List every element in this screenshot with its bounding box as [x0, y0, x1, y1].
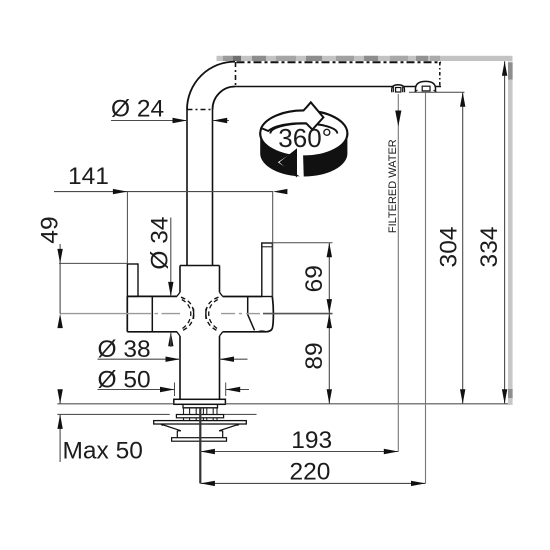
dim 49 line: [59, 244, 61, 314]
dim 141 extension left: [126, 192, 128, 264]
flange top bar: [154, 421, 247, 424]
flange skirt right: [219, 424, 240, 438]
dim Ø50 tick right: [225, 383, 227, 397]
dim 304 line: [462, 92, 464, 403]
svg-text:334: 334: [476, 227, 503, 268]
right lever rod: [262, 243, 273, 297]
svg-text:Ø 34: Ø 34: [146, 216, 173, 269]
right handle body: [223, 297, 274, 332]
grey band right edge: [508, 62, 513, 406]
column corner chamfer top-right: [220, 292, 223, 296]
spout elbow joint dashed vertical: [235, 62, 237, 87]
shank block below plate: [183, 404, 218, 408]
icon white notch around black arrow: [278, 146, 304, 179]
handle centreline right: [221, 313, 263, 315]
column top shoulder: [180, 265, 220, 267]
handle centreline left dashed part: [127, 313, 180, 315]
flange end tick right: [237, 424, 239, 426]
dim 49 extension: [59, 262, 127, 264]
right lever rod cap line: [262, 246, 273, 248]
dim 334 line: [504, 61, 506, 403]
dim 193 line: [200, 451, 398, 453]
svg-text:49: 49: [37, 216, 64, 243]
flange skirt left: [161, 424, 182, 438]
dim 141 extension right: [272, 192, 274, 297]
svg-text:69: 69: [301, 265, 328, 292]
spout elbow inner arc: [213, 87, 236, 110]
spout tube joint dashed horizontal: [188, 109, 213, 111]
dim Ø50 line: [98, 389, 175, 391]
left handle boss apex solid: [193, 309, 195, 319]
under-spout extension line: [409, 91, 465, 93]
dim 69 extension top: [273, 242, 333, 244]
filtered water leader line: [397, 94, 399, 452]
svg-text:Max 50: Max 50: [63, 437, 143, 464]
svg-text:141: 141: [68, 163, 109, 190]
dim Max 50 line: [59, 390, 61, 404]
aerator outlet large: [415, 81, 437, 92]
dim 89 line: [328, 314, 330, 404]
right handle boss apex solid: [205, 309, 207, 319]
left handle boss dashed arc inner: [182, 300, 191, 329]
icon white rotate arrow: [261, 102, 323, 131]
bottom nut: [172, 438, 227, 442]
right handle boss dashed arc inner: [209, 300, 218, 329]
dim 69 line: [328, 243, 330, 314]
spout vertical tube right edge: [212, 110, 214, 266]
column left edge upper: [179, 266, 181, 293]
svg-text:220: 220: [290, 459, 331, 486]
icon inner arc: [270, 124, 337, 134]
icon white base ellipse: [260, 111, 347, 157]
right handle boss dashed arc outer: [206, 297, 219, 331]
central threaded rod: [199, 408, 201, 484]
dim Ø34 leader: [170, 218, 172, 297]
left handle boss dashed arc outer: [181, 297, 194, 331]
base plate: [174, 399, 226, 404]
counter bottom line right: [224, 413, 257, 415]
icon outer ellipse outline: [260, 111, 347, 157]
dim Ø50 tick left: [174, 383, 176, 397]
spout horizontal tube top dashed line: [237, 61, 442, 63]
counter bottom line left: [57, 413, 169, 415]
left handle body: [127, 296, 177, 331]
spout elbow outer arc: [187, 62, 235, 110]
thread lines: [184, 408, 218, 421]
svg-text:FILTERED WATER: FILTERED WATER: [387, 139, 399, 233]
svg-text:89: 89: [301, 342, 328, 369]
column corner chamfer top-left: [177, 292, 180, 296]
column corner chamfer bottom-right: [220, 332, 223, 336]
spout horizontal tube bottom line: [235, 86, 441, 88]
counter top line right: [225, 403, 508, 405]
icon black bottom band: [260, 134, 347, 177]
outlet leader line (220): [425, 92, 427, 483]
svg-text:Ø 24: Ø 24: [111, 96, 164, 123]
column left edge lower: [179, 336, 181, 399]
grey shading band along top of spout: [217, 56, 513, 61]
aerator outlet small (filtered): [392, 85, 405, 93]
svg-text:304: 304: [435, 227, 462, 268]
dim Ø38 line: [98, 358, 181, 360]
left lever rod: [127, 264, 138, 296]
svg-text:193: 193: [291, 427, 332, 454]
spout end dashed vertical: [439, 62, 441, 87]
washer under counter: [176, 415, 223, 418]
handle centreline right solid: [263, 313, 333, 315]
flange end tick left: [161, 424, 163, 426]
column right edge upper: [219, 266, 221, 293]
column right edge lower: [219, 336, 221, 399]
svg-text:360°: 360°: [278, 123, 332, 153]
column corner chamfer bottom-left: [177, 332, 180, 336]
dim 141 line: [54, 191, 273, 193]
filtered water arrow: [395, 111, 401, 127]
dim Ø24 line: [111, 120, 187, 122]
dim 220 line: [200, 482, 425, 484]
spout vertical tube left edge: [186, 110, 188, 266]
handle centreline left solid part: [60, 313, 127, 315]
counter top line left: [57, 403, 174, 405]
360 swivel icon: [260, 102, 347, 179]
icon black return arrow: [279, 148, 297, 177]
